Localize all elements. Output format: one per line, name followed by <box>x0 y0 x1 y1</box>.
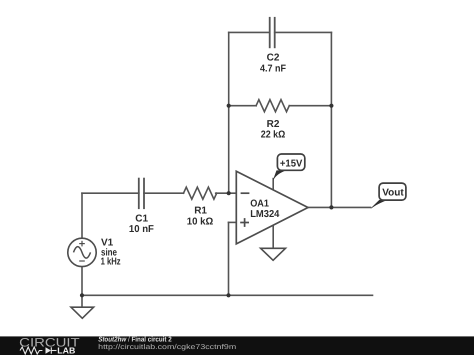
wire signal horizontal to C1 <box>82 192 139 194</box>
wire V1 bottom vertical <box>81 267 83 296</box>
junction node plus-to-rail <box>226 293 230 297</box>
wire op-amp output <box>308 206 371 208</box>
svg-text:+15V: +15V <box>280 158 303 169</box>
wire op-amp V+ stub <box>272 179 274 191</box>
wire bottom ground rail <box>82 294 373 296</box>
Vout output flag <box>371 183 406 208</box>
wire plus input horizontal <box>229 221 237 223</box>
resistor R2 zigzag <box>256 100 289 112</box>
footer bar <box>0 336 474 355</box>
capacitor C2 left plate <box>269 18 271 48</box>
svg-text:1 kHz: 1 kHz <box>101 257 121 268</box>
wire C1 to R1 <box>144 192 184 194</box>
op-amp OA1 triangle <box>236 171 308 244</box>
V1 sine squiggle <box>74 247 91 259</box>
voltage source V1 circle <box>68 238 96 266</box>
svg-text:R2: R2 <box>267 119 280 130</box>
svg-text:Stout2hw / Final circuit 2: Stout2hw / Final circuit 2 <box>98 336 172 344</box>
wire V1 top vertical <box>81 193 83 238</box>
svg-text:LAB: LAB <box>57 346 75 355</box>
junction node minus input <box>227 191 231 195</box>
V1 minus mark <box>79 260 85 262</box>
junction node output <box>329 205 333 209</box>
svg-text:10 nF: 10 nF <box>129 224 154 235</box>
wire R2 right lead <box>289 105 331 107</box>
svg-text:Vout: Vout <box>382 188 404 199</box>
wire R1 to op-amp minus input <box>216 192 237 194</box>
footer logo diode <box>46 347 52 353</box>
junction node V1 bottom <box>80 293 84 297</box>
svg-text:http://circuitlab.com/cgke73cc: http://circuitlab.com/cgke73cctnf9m <box>98 343 236 351</box>
junction node R2 left <box>227 104 231 108</box>
wire op-amp V- stub <box>272 224 274 248</box>
wire top feedback left segment <box>229 31 270 33</box>
svg-text:LM324: LM324 <box>250 209 280 220</box>
junction node R2 right <box>329 104 333 108</box>
svg-text:R1: R1 <box>194 205 207 216</box>
resistor R1 zigzag <box>184 187 217 199</box>
svg-text:4.7 nF: 4.7 nF <box>260 64 286 75</box>
capacitor C1 left plate <box>138 179 140 209</box>
wire V1 ground stub <box>81 295 83 307</box>
capacitor C2 right plate <box>274 18 276 48</box>
wire R2 left lead <box>229 105 256 107</box>
op-amp plus symbol <box>240 218 249 227</box>
op-amp minus symbol <box>241 192 250 194</box>
wire feedback left vertical <box>228 32 230 193</box>
svg-text:10 kΩ: 10 kΩ <box>187 217 214 228</box>
wire plus input vertical to ground rail <box>228 222 230 295</box>
svg-text:C1: C1 <box>135 213 148 224</box>
ground under op-amp <box>261 248 286 260</box>
V1 plus mark <box>79 241 85 247</box>
svg-text:C2: C2 <box>267 53 280 64</box>
wire feedback right vertical <box>330 32 332 207</box>
svg-text:22 kΩ: 22 kΩ <box>261 129 286 140</box>
capacitor C1 right plate <box>143 179 145 209</box>
wire top feedback right segment <box>275 31 332 33</box>
footer logo zigzag <box>20 347 42 354</box>
+15V supply flag <box>273 154 305 180</box>
ground under V1 <box>71 307 94 318</box>
